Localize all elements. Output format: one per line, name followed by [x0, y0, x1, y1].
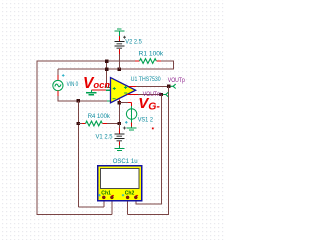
label V1 2.5 — [96, 133, 113, 140]
svg-text:VIN 0: VIN 0 — [67, 81, 79, 88]
pin IN+ green tip — [107, 86, 111, 88]
wire V1 node to battery — [118, 124, 120, 134]
wire rail2 VIN top rail — [58, 68, 174, 70]
pin CH1- dot — [110, 196, 113, 199]
pin op-amp bottom — [118, 100, 120, 105]
wire rail1 top feedback rail — [37, 60, 135, 62]
wire CH1+ bottom horizontal — [78, 206, 103, 208]
pin VOUTp output fork — [171, 84, 176, 88]
oscilloscope OSC1 body — [98, 166, 142, 201]
label R1 100k — [139, 51, 164, 58]
battery V1 — [114, 134, 124, 141]
svg-text:R1 100k: R1 100k — [139, 51, 164, 58]
source VIN circle — [53, 80, 63, 90]
label VOUTm — [143, 91, 162, 98]
label VOUTp — [168, 77, 185, 84]
node junction rail2 V2 — [118, 68, 121, 71]
pin CH2+ dot — [126, 196, 129, 199]
pin Vocm red line — [91, 89, 111, 91]
plus marker VIN — [62, 74, 65, 77]
op-amp U1 THS7530 — [111, 78, 136, 103]
label VG- red net label — [138, 95, 160, 113]
pin V2 bottom — [118, 49, 120, 54]
svg-text:VS1 2: VS1 2 — [138, 116, 154, 123]
label Ch2 — [125, 191, 135, 197]
wire CH2+ vertical — [127, 197, 129, 214]
wire CH2- vertical — [136, 197, 137, 204]
label V2 2.5 — [125, 39, 142, 46]
ground VS1 — [127, 127, 137, 130]
pin V2 top — [118, 36, 120, 41]
node VOUTm junction — [160, 93, 163, 96]
marker op-amp plus out — [124, 86, 127, 89]
marker plus CH2 — [122, 194, 124, 196]
marker op-amp minus out — [124, 92, 127, 94]
label R4 100k — [88, 113, 111, 120]
pin OUT- — [127, 94, 138, 96]
wire CH1+ vertical to scope — [103, 197, 105, 206]
battery V2 — [114, 42, 124, 49]
ground V1 — [114, 146, 124, 151]
pin VIN bottom — [57, 91, 59, 96]
wire op-amp bottom to V1 node — [118, 104, 120, 124]
pin VIN top — [57, 69, 59, 80]
label VS1 2 — [138, 116, 154, 123]
wire OUT+ to VOUTp node — [136, 85, 169, 87]
svg-text:VOUTp: VOUTp — [168, 77, 185, 84]
svg-text:V2 2.5: V2 2.5 — [125, 39, 142, 46]
wire vertical A rail1 to IN+ pin — [106, 61, 108, 87]
node junction rail2 vertical A — [105, 68, 108, 71]
label Ch1 — [101, 191, 111, 197]
plus sign V2 — [123, 36, 126, 39]
wire VIN bottom to IN- — [58, 96, 107, 101]
node junction V1 — [118, 122, 121, 125]
label Vocm red net label — [83, 75, 113, 92]
wire R1 right loop down to rail2 — [161, 61, 174, 69]
red dot marker — [152, 128, 154, 130]
label OSC1 1u — [113, 158, 138, 165]
ground Vocm — [86, 90, 97, 95]
node junction VS1 branch — [118, 101, 121, 104]
pin VOUTm output fork — [163, 92, 168, 96]
node junction rail1 vertical A — [105, 60, 108, 63]
resistor R1 — [135, 59, 161, 64]
label VIN 0 — [67, 81, 79, 88]
svg-text:U1 THS7530: U1 THS7530 — [131, 76, 161, 83]
marker minus CH1 — [112, 194, 114, 196]
resistor R4 — [78, 121, 118, 126]
pin VS1 top — [131, 103, 133, 109]
pin VS1 bottom — [131, 119, 133, 126]
pin OUT+ — [129, 85, 136, 87]
ground above V2 inverted — [114, 29, 124, 36]
marker op-amp plus in — [113, 87, 116, 90]
node junction VIN bottom R4 vertical — [77, 99, 80, 102]
wire V2 to rail2 — [118, 54, 120, 69]
marker minus CH2 — [136, 194, 138, 196]
node VOUTp junction — [167, 85, 170, 88]
label U1 THS7530 — [131, 76, 161, 83]
wire VS1 branch — [119, 102, 131, 104]
pin CH1+ dot — [102, 196, 105, 199]
wire VOUTp vertical down — [168, 86, 170, 214]
pin CH2- dot — [134, 196, 137, 199]
plus marker VS1 — [125, 121, 128, 124]
svg-text:V1 2.5: V1 2.5 — [96, 133, 113, 140]
pin V1 bottom — [118, 142, 120, 146]
wire OUT- to VOUTm node — [138, 94, 161, 96]
svg-text:Ch2: Ch2 — [125, 191, 135, 197]
marker op-amp minus in — [113, 98, 116, 100]
plus sign V1 — [123, 127, 126, 130]
wire outer left vertical — [36, 61, 38, 215]
wire R4 vertical left mid — [77, 101, 79, 207]
wire bottom CH2+ horizontal — [128, 213, 170, 215]
source VS1 circle — [126, 109, 136, 119]
svg-text:Ch1: Ch1 — [101, 191, 111, 197]
marker plus CH1 — [98, 194, 100, 196]
wire VOUTm vertical down — [136, 95, 162, 205]
wire bottom left horizontal CH1- to outer loop — [37, 213, 112, 215]
node junction R4 left — [77, 122, 80, 125]
svg-text:R4 100k: R4 100k — [88, 113, 111, 120]
pin IN- green tip — [107, 100, 111, 102]
svg-text:OSC1 1u: OSC1 1u — [113, 158, 138, 165]
wire CH1- vertical and left — [111, 197, 113, 214]
